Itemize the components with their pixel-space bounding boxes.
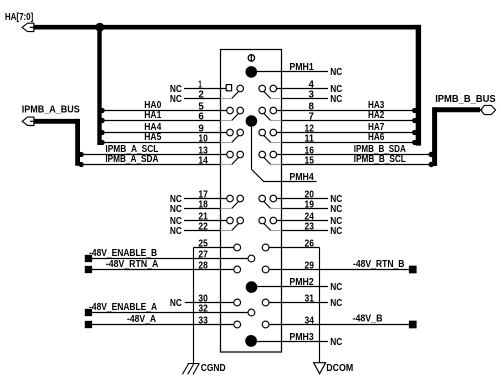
wire pin 14 link diagonal	[232, 157, 239, 164]
wire pin 16 to IPMB_B_SDA	[277, 154, 432, 156]
node HA bus tap HA7	[412, 130, 417, 135]
wire IPMB_A_SCL to pin 13	[81, 154, 227, 156]
svg-text:NC: NC	[330, 298, 343, 309]
svg-text:NC: NC	[170, 204, 183, 215]
wire IPMB_B bus vertical	[432, 107, 437, 166]
svg-text:28: 28	[198, 261, 208, 272]
IPMB_A_BUS bus entry arrow	[22, 117, 34, 125]
connector pin 3 contact circle	[259, 85, 266, 92]
svg-text:NC: NC	[330, 226, 343, 237]
wire CGND to pin 25	[194, 247, 234, 249]
svg-text:NC: NC	[330, 67, 343, 78]
wire PMH2 lead	[257, 286, 328, 288]
connector pin 27 contact circle	[248, 255, 255, 262]
wire DCOM vertical	[319, 248, 321, 363]
svg-text:NC: NC	[330, 337, 343, 348]
node HA bus tap HA0	[100, 108, 105, 113]
svg-text:NC: NC	[330, 282, 343, 293]
svg-text:-48V_RTN_B: -48V_RTN_B	[353, 259, 405, 270]
HA[7:0] bus entry arrow	[22, 23, 34, 31]
svg-text:19: 19	[305, 200, 315, 211]
wire pin 15 to IPMB_B_SCL	[271, 164, 282, 166]
connector pin 20 contact circle	[270, 195, 277, 202]
svg-text:32: 32	[198, 304, 208, 315]
svg-text:2: 2	[198, 90, 204, 101]
wire pin 23 NC	[271, 230, 282, 232]
svg-text:3: 3	[309, 90, 315, 101]
wire HA4 to pin 9	[102, 132, 227, 134]
node HA bus tap HA2	[412, 118, 417, 123]
svg-text:-48V_ENABLE_B: -48V_ENABLE_B	[89, 248, 157, 259]
svg-text:NC: NC	[170, 298, 183, 309]
connector pin 5 contact circle	[227, 107, 234, 114]
connector guide pin PMH4	[246, 115, 258, 127]
wire pin 18 NC	[184, 208, 221, 210]
connector guide pin PMH3	[245, 335, 257, 347]
wire HA bus left vertical drop	[97, 27, 101, 145]
svg-text:PMH4: PMH4	[289, 172, 314, 183]
connector pin 30 contact circle	[234, 299, 241, 306]
wire -48V_ENABLE_A to pin 32	[92, 312, 248, 314]
svg-text:PMH3: PMH3	[289, 332, 314, 343]
svg-text:33: 33	[198, 316, 208, 327]
wire HA bus right vertical drop	[416, 25, 421, 146]
svg-text:DCOM: DCOM	[326, 363, 353, 374]
svg-text:29: 29	[305, 261, 315, 272]
connector pin 13 contact circle	[227, 151, 234, 158]
svg-text:14: 14	[198, 156, 208, 167]
wire pin 8 to HA3	[277, 110, 416, 112]
node IPMB_A SCL junction	[79, 152, 84, 157]
node IPMB_B SDA junction	[429, 152, 434, 157]
svg-text:IPMB_B_BUS: IPMB_B_BUS	[435, 94, 496, 105]
wire pin 19 link diagonal	[264, 201, 271, 208]
node HA bus tap HA3	[412, 108, 417, 113]
terminal -48V_ENABLE_A	[85, 309, 92, 316]
wire pin 20 NC	[277, 198, 328, 200]
svg-text:NC: NC	[330, 204, 343, 215]
wire -48V_A to pin 33	[92, 324, 234, 326]
wire pin 2 NC	[184, 98, 221, 100]
connector pin 11 contact circle	[259, 129, 266, 136]
wire pin 15 link diagonal	[264, 157, 271, 164]
wire pin 7 to HA2	[271, 120, 282, 122]
connector J1 body outline	[221, 50, 282, 353]
wire pin 7 link diagonal	[264, 113, 271, 120]
connector pin 19 contact circle	[259, 195, 266, 202]
wire PMH3 lead	[257, 341, 328, 343]
connector pin 32 contact circle	[248, 309, 255, 316]
connector pin 33 contact circle	[234, 321, 241, 328]
svg-text:-48V_A: -48V_A	[127, 314, 157, 325]
wire pin 29 to -48V_RTN_B	[269, 269, 409, 271]
connector pin 6 contact circle	[237, 107, 244, 114]
connector pin 12 contact circle	[270, 129, 277, 136]
terminal -48V_RTN_B	[409, 266, 417, 274]
terminal -48V_B	[409, 321, 417, 329]
ground CGND riser	[193, 248, 195, 364]
wire pin 11 to HA6	[271, 142, 282, 144]
svg-text:NC: NC	[170, 94, 183, 105]
wire HA5 to pin 10	[102, 142, 220, 144]
svg-text:10: 10	[198, 134, 208, 145]
wire -48V_RTN_A to pin 28	[92, 269, 234, 271]
connector pin 22 contact circle	[237, 217, 244, 224]
connector pin 9 contact circle	[227, 129, 234, 136]
svg-text:NC: NC	[170, 226, 183, 237]
svg-text:IPMB_A_BUS: IPMB_A_BUS	[22, 104, 80, 115]
connector guide pin PMH1	[246, 66, 258, 78]
wire pin 12 to HA7	[277, 132, 416, 134]
node HA bus junction	[95, 23, 104, 32]
wire -48V_ENABLE_B to pin 27	[92, 258, 248, 260]
IPMB_B_BUS bus entry arrow	[481, 105, 496, 114]
wire pin 22 link diagonal	[232, 223, 239, 230]
terminal -48V_RTN_A	[85, 266, 92, 273]
svg-text:6: 6	[198, 112, 204, 123]
svg-text:PMH1: PMH1	[289, 62, 314, 73]
connector pin 18 contact circle	[237, 195, 244, 202]
node IPMB_B SCL junction	[429, 162, 434, 167]
node HA bus tap HA4	[100, 130, 105, 135]
ground CGND symbol	[188, 363, 200, 365]
wire IPMB_B bus horizontal	[435, 107, 480, 112]
connector pin 24 contact circle	[270, 217, 277, 224]
connector pin 7 contact circle	[259, 107, 266, 114]
wire HA[7:0] bus horizontal	[34, 25, 421, 30]
wire pin 19 NC	[271, 208, 282, 210]
svg-text:26: 26	[305, 239, 315, 250]
connector pin 21 contact circle	[227, 217, 234, 224]
connector pin 31 contact circle	[262, 299, 269, 306]
svg-text:CGND: CGND	[201, 363, 226, 374]
connector keying symbol (phi)	[248, 55, 254, 61]
connector pin 8 contact circle	[270, 107, 277, 114]
terminal -48V_ENABLE_B	[85, 255, 92, 262]
wire pin 11 link diagonal	[264, 135, 271, 142]
node IPMB_A SDA junction	[79, 162, 84, 167]
wire pin 31 NC	[269, 302, 328, 304]
svg-text:HA5: HA5	[144, 132, 161, 143]
wire pin 1 NC	[184, 88, 226, 90]
svg-text:-48V_RTN_A: -48V_RTN_A	[106, 259, 159, 270]
svg-text:-48V_B: -48V_B	[353, 313, 383, 324]
wire pin 24 NC	[277, 220, 328, 222]
wire HA0 to pin 5	[102, 110, 227, 112]
node HA bus tap HA5	[100, 140, 105, 145]
wire pin 26 to DCOM corner	[269, 247, 320, 249]
svg-text:PMH2: PMH2	[289, 277, 314, 288]
wire pin 34 to -48V_B	[269, 324, 409, 326]
svg-text:NC: NC	[330, 94, 343, 105]
wire pin 17 NC	[184, 198, 227, 200]
terminal -48V_A	[85, 321, 92, 328]
node HA bus tap HA1	[100, 118, 105, 123]
connector pin 17 contact circle	[227, 195, 234, 202]
svg-text:22: 22	[198, 222, 208, 233]
wire pin 10 link diagonal	[232, 135, 239, 142]
wire pin 3 NC	[271, 98, 282, 100]
svg-text:18: 18	[198, 200, 208, 211]
wire pin 30 NC	[185, 302, 234, 304]
connector pin 4 contact circle	[270, 85, 277, 92]
svg-text:HA[7:0]: HA[7:0]	[5, 12, 33, 23]
svg-text:-48V_ENABLE_A: -48V_ENABLE_A	[89, 302, 158, 313]
connector pin 15 contact circle	[259, 151, 266, 158]
connector pin 16 contact circle	[270, 151, 277, 158]
svg-text:7: 7	[309, 112, 315, 123]
connector pin 23 contact circle	[259, 217, 266, 224]
wire pin 18 link diagonal	[232, 201, 239, 208]
connector pin 26 contact circle	[262, 244, 269, 251]
svg-text:HA6: HA6	[368, 132, 385, 143]
svg-text:HA2: HA2	[368, 110, 385, 121]
connector pin 34 contact circle	[262, 321, 269, 328]
connector pin 14 contact circle	[237, 151, 244, 158]
svg-text:11: 11	[305, 134, 315, 145]
wire IPMB_A bus horizontal	[34, 119, 78, 124]
svg-text:15: 15	[305, 156, 315, 167]
wire IPMB_A bus vertical	[75, 119, 80, 166]
connector pin 29 contact circle	[262, 266, 269, 273]
svg-text:23: 23	[305, 222, 315, 233]
svg-text:25: 25	[198, 239, 208, 250]
svg-text:IPMB_B_SCL: IPMB_B_SCL	[354, 154, 406, 165]
connector pin 28 contact circle	[234, 266, 241, 273]
wire pin 2 link diagonal	[232, 91, 239, 98]
svg-text:31: 31	[305, 294, 315, 305]
wire PMH1 lead	[257, 71, 328, 73]
svg-text:34: 34	[305, 316, 315, 327]
wire pin 3 link diagonal	[264, 91, 271, 98]
connector pin 25 contact circle	[234, 244, 241, 251]
connector pin 10 contact circle	[237, 129, 244, 136]
ground DCOM symbol	[314, 363, 326, 374]
wire pin 21 NC	[184, 220, 227, 222]
wire pin 23 link diagonal	[264, 223, 271, 230]
node HA bus tap HA6	[412, 140, 417, 145]
connector pin 1 contact (square)	[226, 85, 231, 91]
svg-text:IPMB_A_SDA: IPMB_A_SDA	[105, 154, 159, 165]
connector guide pin PMH2	[246, 281, 258, 293]
svg-text:27: 27	[198, 250, 208, 261]
wire pin 4 NC	[277, 88, 328, 90]
wire pin 6 link diagonal	[232, 113, 239, 120]
wire PMH4 lead elbow	[252, 127, 317, 182]
connector pin 2 contact circle	[237, 85, 244, 92]
wire IPMB_A_SDA to pin 14	[81, 164, 220, 166]
wire HA1 to pin 6	[102, 120, 220, 122]
svg-text:HA1: HA1	[144, 110, 161, 121]
wire pin 22 NC	[184, 230, 221, 232]
